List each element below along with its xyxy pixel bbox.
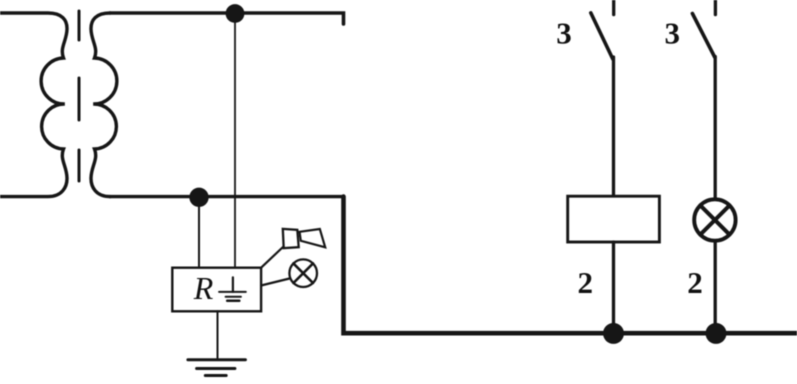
- svg-text:3: 3: [556, 16, 572, 51]
- svg-text:2: 2: [577, 265, 593, 300]
- svg-text:2: 2: [687, 265, 703, 300]
- svg-text:3: 3: [665, 16, 681, 51]
- svg-text:R: R: [193, 270, 214, 306]
